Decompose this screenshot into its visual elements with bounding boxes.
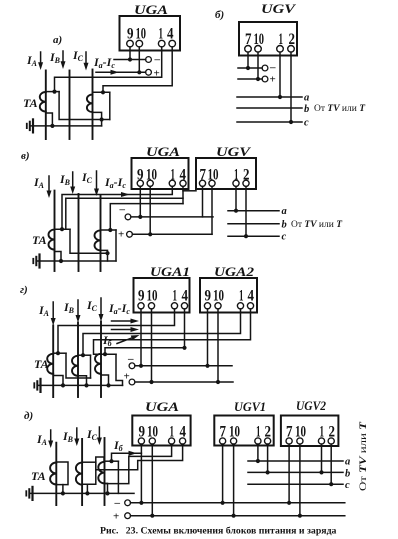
svg-text:c: c: [345, 480, 350, 491]
line b (v): [228, 223, 279, 225]
wire plus stub line with Ia-Ic current arrow: [96, 71, 146, 73]
svg-text:c: c: [282, 232, 287, 243]
junction CT C stub bus (d): [105, 491, 109, 495]
junction stem9 UGA1 minus (g): [139, 364, 143, 368]
line b (b): [237, 107, 302, 109]
output contact plus (a): [146, 69, 152, 75]
UGA1 terminal circle 9: [138, 303, 144, 309]
wire stem UGV1 to line a (v): [235, 186, 237, 210]
junction link line (a): [100, 117, 104, 121]
UGA(v) terminal circle 4: [180, 180, 186, 186]
ground bus (v): [37, 260, 116, 262]
output contact minus (a): [146, 57, 152, 63]
CT B stub to bus (d): [82, 462, 96, 493]
UGV terminal circle 2: [288, 46, 295, 53]
UGV(v) terminal circle 10: [209, 180, 215, 186]
line c (d): [248, 483, 343, 485]
UGV2 terminal circle 1: [318, 438, 324, 444]
block UGA2 body: [200, 278, 257, 313]
current arrow stub 1 Ia-Ic (g): [112, 320, 132, 322]
svg-text:а): а): [53, 34, 62, 46]
wire minus line (d): [131, 502, 345, 504]
svg-text:–: –: [269, 62, 276, 74]
CT C secondary top lead (a): [93, 91, 110, 93]
CT C right lead down (d): [105, 461, 119, 493]
junction UGV2-line-c (b): [289, 120, 293, 124]
current arrow IB (a): [62, 51, 64, 63]
svg-text:4: 4: [182, 288, 189, 305]
junction CT B top (g): [81, 353, 85, 357]
UGV1 terminal circle 7: [220, 438, 226, 444]
output contact minus (d): [125, 500, 131, 506]
wire stem 10 to plus line (v): [149, 186, 151, 234]
line a (v): [228, 210, 279, 212]
svg-text:От TV или Т: От TV или Т: [359, 420, 369, 491]
svg-text:UGA: UGA: [146, 144, 180, 159]
UGV2 terminal circle 2: [328, 438, 334, 444]
svg-text:a: a: [282, 206, 287, 217]
UGA(v) terminal circle 1: [169, 180, 175, 186]
svg-text:Рис. 23. Схемы включения бло: Рис. 23. Схемы включения блоков питания …: [100, 526, 337, 537]
arrowhead Ia-Ic on Hb (v): [121, 192, 130, 197]
svg-text:b: b: [304, 104, 309, 115]
wire plus line (v): [132, 233, 212, 235]
wire stem terminal 9 to minus line: [129, 47, 131, 60]
junction UGV1-2 line b (d): [266, 470, 270, 474]
ground symbol (d): [31, 487, 33, 500]
current transformer TA phase B secondary winding (d): [76, 463, 82, 485]
wire stem UGV2-10 to plus line (d): [299, 444, 301, 516]
junction CT C top (d): [109, 459, 113, 463]
svg-text:TA: TA: [23, 96, 38, 110]
CT A secondary top lead (v): [55, 228, 71, 230]
current arrow IB (d): [76, 428, 78, 440]
wire minus stub line: [114, 59, 146, 61]
svg-text:+: +: [113, 511, 119, 523]
current transformer TA phase C secondary winding (g): [95, 354, 101, 374]
wire stem UGV7 to minus line (v): [202, 186, 204, 217]
wire stem 10 UGA1 to plus line (g): [151, 309, 153, 382]
UGA(d) terminal circle 10: [149, 438, 155, 444]
UGA terminal circle 9: [127, 40, 134, 47]
wire stem 4 UGA(d) step to CT chain: [96, 444, 183, 470]
wire stem UGV2 to line c (v): [245, 186, 247, 236]
svg-text:b: b: [282, 220, 287, 231]
current arrow IA (d): [50, 430, 52, 442]
svg-text:б): б): [215, 9, 224, 21]
junction UGV1-line-a (b): [278, 95, 282, 99]
UGA2 terminal circle 4: [247, 303, 253, 309]
svg-text:4: 4: [248, 288, 255, 305]
UGV terminal circle 10: [255, 46, 262, 53]
current arrow IC (d): [98, 427, 100, 439]
junction stem10-plus: [137, 70, 141, 74]
ground symbol (a): [32, 119, 34, 132]
ground symbol (v): [38, 255, 40, 268]
svg-text:–: –: [127, 353, 134, 365]
junction UGV2-10 plus (d): [298, 514, 302, 518]
wire stem UGV1-10 to plus line (d): [233, 444, 235, 516]
wire stem UGV1 to line a (b): [279, 52, 281, 97]
current arrow IC (v): [96, 171, 98, 190]
phase conductor B (a): [69, 71, 71, 140]
svg-text:10: 10: [147, 288, 158, 305]
output contact minus (g): [129, 363, 135, 369]
junction CT C top (g): [103, 352, 107, 356]
wire plus line (b): [238, 78, 262, 80]
wire minus line (g): [135, 365, 232, 367]
svg-text:–: –: [114, 497, 121, 509]
UGA2 terminal circle 10: [215, 303, 221, 309]
junction CT A stub on bus (a): [50, 124, 54, 128]
UGA(d) terminal circle 1: [169, 438, 175, 444]
block UGV1 body: [214, 416, 273, 446]
junction stem9-minus (v): [138, 215, 142, 219]
output contact plus (b): [262, 76, 268, 82]
svg-text:UGA2: UGA2: [214, 264, 255, 279]
junction stem10 UGA1 plus (g): [149, 380, 153, 384]
junction UGV2-1 line b (d): [319, 470, 323, 474]
junction UGV1-1 line a (d): [256, 459, 260, 463]
CT B secondary top lead and step up to CT C (d): [82, 461, 96, 463]
CT A bottom stub to ground bus (a): [46, 113, 53, 126]
junction UGV1-7 minus (d): [221, 501, 225, 505]
ground symbol (g): [39, 379, 41, 392]
junction UGV2-line-c (v): [244, 234, 248, 238]
UGA1 terminal circle 1: [171, 303, 177, 309]
ground bus (d): [30, 492, 134, 494]
wire row4 CT C top dot to UGA1 terminal 4 (g): [105, 348, 185, 354]
UGA(d) terminal circle 9: [138, 438, 144, 444]
phase conductor A (d): [55, 443, 57, 505]
svg-text:От TV или T: От TV или T: [314, 104, 366, 114]
CT C bottom stub (v): [101, 250, 108, 261]
junction UGV1-10 plus (d): [232, 514, 236, 518]
junction CT C top (v): [108, 228, 112, 232]
current transformer TA phase A secondary winding (a): [40, 92, 46, 112]
current arrow IC (a): [85, 52, 87, 64]
CT C right lead down (v): [115, 230, 117, 261]
wire stem 9 UGA(d) to minus line: [140, 444, 142, 503]
UGA2 terminal circle 1: [237, 303, 243, 309]
svg-text:UGV2: UGV2: [296, 398, 326, 413]
wire stem terminal 10 to plus line: [138, 47, 140, 72]
wire stem UGV10 to plus line (b): [257, 52, 259, 79]
svg-text:TA: TA: [31, 469, 46, 483]
junction stem10-plus (d): [150, 514, 154, 518]
phase conductor A (v): [54, 191, 56, 271]
UGA1 terminal circle 4: [181, 303, 187, 309]
svg-text:1: 1: [239, 288, 244, 305]
svg-text:b: b: [345, 469, 350, 480]
UGV2 terminal circle 10: [297, 438, 303, 444]
wire stem UGV10 to plus line (v): [211, 186, 213, 234]
junction CT A top (v): [60, 227, 64, 231]
svg-text:9: 9: [205, 288, 212, 305]
UGV2 terminal circle 7: [286, 438, 292, 444]
output contact minus (b): [262, 65, 268, 71]
svg-text:9: 9: [138, 288, 145, 305]
svg-text:UGV: UGV: [216, 144, 252, 159]
current transformer TA phase A secondary winding (g): [47, 354, 53, 374]
arrowhead on plus stub: [111, 70, 120, 75]
junction CT A top (a): [52, 90, 56, 94]
junction stem9-minus: [128, 57, 132, 61]
junction CT C link (v): [105, 251, 109, 255]
junction stem4-row4 (g): [182, 346, 186, 350]
block UGA1 body: [134, 278, 190, 313]
output contact plus (v): [127, 231, 133, 237]
junction CT B stub on bus (g): [84, 383, 88, 387]
wire stem UGV2-1 to line b (d): [321, 444, 323, 472]
UGV(v) terminal circle 7: [199, 180, 205, 186]
wire stem 1 UGA(d) step to CT C bottom: [105, 444, 172, 484]
UGV1 terminal circle 1: [255, 438, 261, 444]
wire Ib line CT C top to UGA(d) stem 9 with arrow: [112, 453, 142, 461]
svg-text:UGA: UGA: [134, 2, 168, 17]
wire terminal 4 to CT C secondary top: [103, 47, 172, 92]
svg-text:От TV или T: От TV или T: [291, 220, 343, 230]
UGA1 terminal circle 10: [148, 303, 154, 309]
wire stem 4 UGA1 to row4 (g): [184, 309, 186, 348]
wire stem 9 to minus line (v): [139, 186, 141, 217]
UGV terminal circle 1: [277, 46, 284, 53]
phase conductor C (g): [100, 322, 102, 398]
current arrow stub 2 Ia-Ic (g): [112, 329, 132, 331]
CT C secondary top lead (d): [105, 460, 119, 462]
junction CT A stub on bus (v): [59, 259, 63, 263]
ground bus (a): [31, 125, 102, 127]
junction CT B stub bus (d): [85, 491, 89, 495]
UGA terminal circle 4: [169, 40, 176, 47]
block UGA (section d) body: [132, 416, 190, 446]
junction UGV2-2 line c (d): [329, 482, 333, 486]
CT C right lead down and to bus (g): [116, 354, 123, 385]
junction stem10 UGA2 plus (g): [216, 380, 220, 384]
junction CT A stub bus (d): [61, 491, 65, 495]
junction UGV7-minus (b): [246, 66, 250, 70]
wire row1 CT A top to UGA1 terminal 1 (g): [58, 309, 175, 354]
CT A stub to bus (d): [62, 485, 64, 494]
current transformer TA phase C secondary winding (a): [87, 95, 93, 113]
CT A right lead and link line (v): [70, 229, 108, 253]
block UGA (section v) body: [132, 158, 189, 189]
wire W1 terminal 1 to CT A secondary top: [55, 47, 162, 92]
phase conductor A (a): [45, 71, 47, 140]
junction stem10-plus (v): [148, 232, 152, 236]
junction CT C stub on bus (g): [106, 383, 110, 387]
svg-text:в): в): [21, 150, 30, 162]
wire Ha stem 4 branch to UGV corner (v): [183, 190, 196, 192]
phase conductor C (d): [104, 438, 106, 505]
wire row3 CT C top-left step to UGA2 terminal 4 (g): [94, 309, 251, 354]
svg-text:+: +: [124, 371, 130, 383]
phase conductor C (a): [92, 70, 94, 140]
UGA terminal circle 10: [136, 40, 143, 47]
UGA(v) terminal circle 9: [137, 180, 143, 186]
svg-text:–: –: [154, 54, 161, 66]
phase conductor B (g): [77, 323, 79, 398]
svg-text:+: +: [270, 74, 276, 86]
wire stem 4 (v): [182, 186, 184, 203]
svg-text:+: +: [118, 229, 124, 241]
junction UGV1-line-a (v): [234, 209, 238, 213]
junction CT A top (g): [56, 351, 60, 355]
junction CT A stub on bus (g): [61, 383, 65, 387]
junction CT C top (a): [101, 90, 105, 94]
ground bus (g): [38, 384, 123, 386]
wire stem UGV2-2 to line c (d): [330, 444, 332, 484]
current transformer TA phase C secondary winding (d): [98, 462, 104, 484]
UGV terminal circle 7: [245, 46, 252, 53]
CT B bottom stub (g): [78, 376, 87, 386]
block UGA (section a) body: [120, 16, 181, 51]
current arrow IA (v): [48, 176, 50, 192]
CT A secondary top lead (a): [46, 91, 59, 93]
CT A secondary loop (d): [56, 462, 68, 485]
wire stem 9 UGA2 to minus line (g): [207, 309, 209, 366]
current transformer TA phase C secondary winding (v): [95, 230, 101, 250]
phase conductor B (v): [78, 194, 80, 271]
wire Hc coil A lead to UGA(v) terminal 4: [66, 198, 183, 229]
wire row2 CT B top to UGA2 terminal 1 (g): [83, 309, 241, 356]
UGA terminal circle 1: [158, 40, 165, 47]
wire Hd CT C top to stem 4 (v): [110, 204, 183, 230]
CT A bottom stub (g): [53, 376, 63, 386]
current arrow IA (a): [40, 52, 42, 64]
current arrow IC (g): [100, 298, 102, 315]
output contact plus (d): [125, 513, 131, 519]
CT C secondary top lead (g): [101, 353, 116, 355]
wire stem 9 UGA1 to minus line (g): [140, 309, 142, 366]
wire stem UGV1-2 to line b (d): [267, 444, 269, 472]
svg-text:UGV1: UGV1: [234, 399, 266, 414]
CT B right lead down (g): [90, 355, 92, 378]
svg-text:UGA1: UGA1: [150, 264, 190, 279]
UGV(v) terminal circle 2: [243, 180, 249, 186]
CT C bottom stub (a): [93, 112, 102, 126]
svg-text:a: a: [304, 93, 309, 104]
wire plus line (g): [135, 381, 233, 383]
junction UGV10-plus (b): [256, 77, 260, 81]
svg-text:a: a: [345, 457, 350, 468]
wire plus line (d): [131, 515, 345, 517]
line a (d): [248, 460, 343, 462]
wire stem UGV1-1 to line a (d): [257, 444, 259, 461]
CT A secondary top lead (g): [53, 352, 66, 354]
junction stem9 UGA2 minus (g): [205, 364, 209, 368]
wire minus line (b): [238, 67, 262, 69]
output contact plus (g): [129, 379, 135, 385]
CT B secondary top lead (g): [78, 354, 91, 356]
UGA2 terminal circle 9: [204, 303, 210, 309]
UGA(d) terminal circle 4: [180, 438, 186, 444]
current transformer TA phase B secondary winding (g): [72, 356, 78, 376]
current arrow IB (v): [72, 172, 74, 188]
svg-text:UGA: UGA: [145, 399, 179, 414]
block UGV (section b) body: [239, 22, 297, 56]
junction UGV2-7 minus (d): [287, 501, 291, 505]
UGA(v) terminal circle 10: [147, 180, 153, 186]
UGV1 terminal circle 10: [231, 438, 237, 444]
UGV(v) terminal circle 1: [233, 180, 239, 186]
wire Hb CT A top to UGA(v) terminal 1 with arrow: [62, 186, 172, 229]
junction stem9-minus (d): [139, 501, 143, 505]
slanted current arrow Ib (g): [117, 338, 133, 344]
wire stem UGV2 to line c (b): [290, 52, 292, 122]
current transformer TA phase A secondary winding (v): [49, 230, 55, 250]
CT C bottom stub (g): [101, 375, 109, 385]
svg-text:TA: TA: [32, 233, 47, 247]
phase conductor C (v): [100, 196, 102, 271]
line c (b): [237, 121, 302, 123]
svg-text:д): д): [24, 410, 33, 422]
svg-text:1: 1: [173, 288, 178, 305]
phase conductor B (d): [81, 439, 83, 505]
wire stem UGV1-7 to minus line (d): [222, 444, 224, 503]
line a (b): [237, 96, 302, 98]
line b (d): [248, 471, 343, 473]
svg-text:c: c: [304, 118, 309, 129]
svg-text:10: 10: [213, 288, 224, 305]
output contact minus (v): [125, 214, 131, 220]
phase conductor A (g): [52, 326, 54, 398]
wire stem 10 UGA2 to plus line (g): [217, 309, 219, 382]
current arrow IA (g): [52, 302, 54, 319]
svg-text:г): г): [20, 284, 28, 296]
block UGV (section v) body: [196, 158, 256, 189]
CT A secondary right lead down (a): [59, 92, 110, 120]
svg-text:–: –: [119, 204, 126, 216]
wire stem UGV7 to minus line (b): [247, 52, 249, 68]
wire minus line (v): [131, 216, 213, 218]
UGV1 terminal circle 2: [265, 438, 271, 444]
wire stem 10 UGA(d) to plus line: [151, 444, 153, 516]
CT C secondary right lead down (a): [109, 92, 111, 119]
block UGV2 body: [281, 416, 339, 447]
CT C secondary top lead (v): [101, 229, 117, 231]
wire stem UGV2-7 to plus line (d): [288, 444, 290, 503]
current arrow IB (g): [77, 300, 79, 316]
current transformer TA phase A secondary winding (d): [50, 463, 56, 485]
svg-text:UGV: UGV: [261, 1, 297, 16]
CT A bottom stub (v): [55, 252, 62, 262]
CT A right lead and link (g): [66, 353, 91, 378]
line c (v): [228, 235, 279, 237]
